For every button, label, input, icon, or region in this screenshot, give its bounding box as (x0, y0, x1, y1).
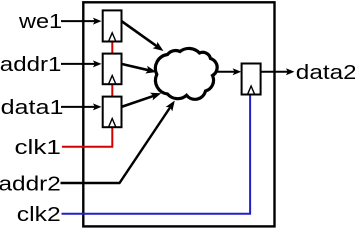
arrowhead data1 into R3 (93, 103, 102, 110)
arrowhead we1 into R1 (93, 18, 102, 25)
arrowhead data2 output (286, 68, 295, 75)
arrowhead addr2 into cloud (166, 101, 175, 112)
label data2 (296, 61, 355, 83)
wire register R4 Q to data2 output (261, 71, 289, 73)
wire clk1 red segment R2 to R1 (111, 42, 113, 55)
wire data1 to register R3 D input (61, 106, 96, 108)
wire addr1 to register R2 D input (61, 63, 96, 65)
clock triangle R1 (109, 33, 116, 42)
wire register R2 Q to cloud (122, 64, 150, 70)
arrowhead cloud into R4 (233, 68, 242, 75)
label we1 (18, 10, 62, 33)
label data1 (1, 95, 64, 118)
register R1 (we1) (103, 10, 122, 41)
arrowhead R3 to cloud (150, 93, 161, 101)
net clk1 (red): horizontal run from clk1 label, up into register R3 clock (62, 127, 112, 147)
arrowhead R1 to cloud (153, 42, 164, 51)
label addr2 (0, 172, 61, 194)
svg-text:clk1: clk1 (15, 136, 61, 158)
arrowhead addr1 into R2 (93, 60, 102, 67)
wire we1 to register R1 D input (61, 20, 96, 22)
register R3 (data1) (103, 97, 122, 128)
combinational logic cloud (155, 48, 217, 99)
wire register R1 Q to cloud (122, 21, 158, 46)
net clk2 (blue): horizontal run from clk2 label, up into register R4 clock (62, 95, 251, 214)
svg-text:clk2: clk2 (17, 203, 61, 225)
wire clk1 red segment R3 to R2 (111, 84, 113, 97)
svg-text:addr1: addr1 (0, 53, 61, 76)
wire addr2 to combinational cloud (61, 107, 171, 183)
svg-text:data2: data2 (296, 61, 355, 83)
arrowhead R2 to cloud (145, 66, 156, 74)
svg-text:we1: we1 (18, 10, 62, 33)
clock triangle R3 (109, 119, 116, 128)
label clk2 (17, 203, 61, 225)
clock triangle R2 (109, 76, 116, 85)
wire cloud to register R4 D input (216, 71, 235, 73)
clock triangle R4 (247, 86, 254, 95)
register R2 (addr1) (103, 54, 122, 85)
label addr1 (0, 53, 61, 76)
wire register R3 Q to cloud (122, 96, 155, 107)
label clk1 (15, 136, 61, 158)
module boundary box (83, 2, 274, 226)
svg-text:addr2: addr2 (0, 172, 61, 194)
register R4 (data2 output) (242, 64, 261, 95)
svg-text:data1: data1 (1, 95, 64, 118)
